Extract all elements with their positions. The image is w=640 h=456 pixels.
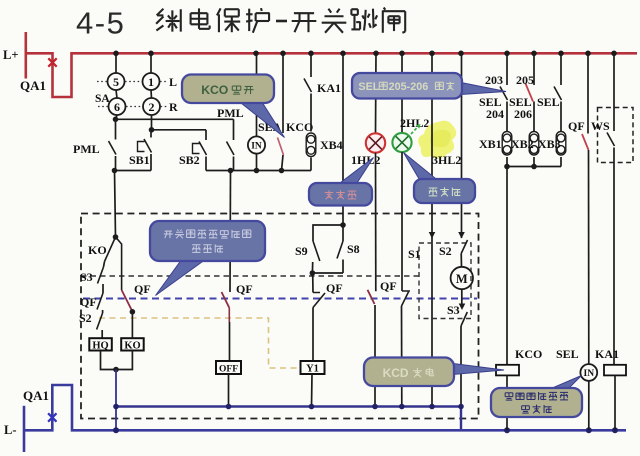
callout red-lamp-off box (309, 183, 372, 206)
svg-text:QF: QF (326, 281, 343, 295)
label XB2 (511, 137, 534, 151)
node S9-S8 join (310, 270, 316, 276)
svg-text:M: M (456, 272, 468, 286)
contact QF4 (opening, red) (368, 290, 376, 407)
contact S3 (left) (98, 262, 105, 294)
label QF4 (380, 279, 397, 293)
node QF1 bottom (130, 309, 136, 315)
contact QF (SEL column, opening) (582, 53, 589, 364)
open marker x on QA1 (48, 58, 56, 66)
label SEL (1) (479, 95, 502, 109)
coil box HQ (89, 338, 112, 351)
wire S2 column top (461, 53, 463, 238)
svg-text:1: 1 (148, 75, 154, 89)
wire OFF column from bus (229, 171, 232, 293)
contact KA1 (top) (304, 53, 312, 131)
svg-text:L+: L+ (3, 48, 18, 62)
svg-text:SEL: SEL (537, 95, 560, 109)
inner dashed box (motor linkage) (419, 243, 471, 319)
contact QF1 (opening, red) (116, 237, 133, 311)
label XB3 (538, 137, 561, 151)
wire M to S3 (461, 289, 463, 305)
svg-text:KO: KO (88, 243, 107, 257)
lamp 1HL2 red (366, 133, 385, 152)
label S9 (295, 244, 308, 258)
contact KO (105, 237, 116, 262)
coil box Y1 (301, 361, 325, 374)
dashed enclosure (breaker mechanism) (81, 214, 479, 419)
label 3HL2 (432, 153, 461, 167)
svg-text:WS: WS (591, 119, 610, 133)
bus1 drop to bus2 (460, 407, 462, 431)
callout SEL-205-206-return box (352, 73, 462, 99)
svg-text:5: 5 (113, 75, 119, 89)
contact SEL 205-206 (closing, red) (526, 53, 535, 131)
label XB1 (479, 137, 502, 151)
svg-text:3HL2: 3HL2 (432, 153, 461, 167)
minus bus 1 (blue) (116, 405, 461, 407)
wire join down to minus bus (115, 370, 117, 431)
svg-text:KA1: KA1 (317, 81, 341, 95)
svg-text:XB2: XB2 (511, 137, 534, 151)
node XB bus at XB1 (504, 164, 510, 170)
contact KCO (opening) (278, 53, 284, 170)
node bus1 at QF4 (372, 404, 378, 410)
node bus right at KCO column (279, 168, 285, 174)
label QF (left chain) (80, 295, 97, 309)
node bus right at SEA column (254, 168, 260, 174)
wire node to PML right branch (116, 118, 234, 120)
dashed box WS (598, 108, 634, 163)
label SEA (258, 120, 282, 134)
node bus1 at OFF (226, 404, 232, 410)
wire rail through 3HL2 column (431, 53, 433, 232)
orange dashed trip path (99, 318, 299, 368)
indicator SEA (IN) (248, 136, 265, 153)
svg-text:KCO: KCO (286, 120, 313, 134)
connector XB3 (556, 132, 566, 156)
label 1HL2 (351, 153, 380, 167)
label 205 (516, 73, 534, 87)
svg-text:SEL: SEL (556, 347, 579, 361)
svg-text:QF: QF (380, 279, 397, 293)
label KCO (bottom) (515, 347, 542, 361)
svg-text:PML: PML (217, 106, 244, 120)
svg-text:204: 204 (486, 107, 504, 121)
wire SA 1 to 2 (150, 90, 153, 98)
label QF1 (134, 282, 151, 296)
svg-text:S2: S2 (79, 311, 92, 325)
wire SA2 down to node (151, 115, 153, 130)
svg-text:6: 6 (114, 100, 120, 114)
label R (169, 100, 178, 114)
contact QF5 (closed type) (402, 291, 411, 407)
SA contact circle 1 (143, 73, 160, 90)
contact S2 (left) (97, 313, 103, 338)
svg-text:S3: S3 (80, 270, 93, 284)
svg-text:KCO: KCO (201, 83, 228, 97)
label SEL (3) (537, 95, 560, 109)
wire QF1 to KO box (131, 312, 133, 338)
node bus1 right (458, 404, 464, 410)
blue dashed linkage line (83, 298, 477, 300)
label 206 (514, 107, 532, 121)
contact S8 (337, 225, 343, 273)
svg-text:XB1: XB1 (479, 137, 502, 151)
label QF3 (326, 281, 343, 295)
svg-text:SB1: SB1 (129, 153, 150, 167)
svg-text:L: L (169, 75, 177, 89)
arrow on S3 (459, 304, 466, 311)
label QA1 (bottom) (23, 388, 49, 403)
label KCO (top) (286, 120, 313, 134)
label S3 (motor) (447, 303, 460, 317)
svg-text:QF: QF (236, 282, 253, 296)
coil KCO (496, 365, 519, 376)
label SEL (2) (509, 95, 532, 109)
lamp 2HL2 green (392, 133, 411, 152)
callout breaker-closed-indicator tail (550, 376, 582, 390)
svg-text:QA1: QA1 (20, 78, 46, 93)
lamp 3HL2 highlight blob (418, 121, 456, 159)
label XB4 (320, 138, 343, 152)
svg-text:Y1: Y1 (306, 363, 319, 374)
callout KCO-opens box (182, 75, 274, 104)
disconnect switch QA1 (top, open) (26, 53, 637, 97)
contact SEL (3) (554, 53, 562, 131)
svg-text:HQ: HQ (92, 340, 108, 351)
svg-text:KO: KO (124, 340, 140, 351)
wire lamp 2HL2 down (401, 152, 403, 291)
node XB bus at XB2 (531, 164, 537, 170)
svg-text:QA1: QA1 (23, 388, 49, 403)
SA contact circle 2 (143, 98, 160, 115)
connector XB2 (529, 132, 539, 156)
label PML (right) (217, 106, 244, 120)
svg-text:205: 205 (516, 73, 534, 87)
node bus1 at Y1 (309, 404, 315, 410)
junction dots on L+ rail (113, 51, 617, 57)
wire rail into box (S9/S8 feed) (342, 53, 344, 225)
node bus2 at KCO coil (504, 427, 510, 433)
callout red-lamp-off tail (338, 158, 374, 185)
disconnect switch QA1 (bottom, open) (24, 385, 626, 430)
wire rail to SEA lamp (256, 53, 258, 136)
svg-text:IN: IN (251, 142, 262, 152)
wire Y1 to minus bus1 (311, 374, 314, 407)
label L- (4, 423, 17, 437)
node bus1 left (113, 404, 119, 410)
wire rail to lamp 2HL2 (401, 53, 403, 133)
arrow on S1 column (429, 232, 436, 239)
label S1 (408, 247, 421, 261)
coil box OFF (216, 361, 241, 374)
svg-text:203: 203 (485, 73, 503, 87)
L+ terminal wire (24, 32, 27, 79)
motor M (451, 267, 473, 289)
wire S8 bottom to S9 node (312, 272, 343, 274)
callout KCD-deenergized box (364, 358, 454, 387)
callout breaker-closed-indicator box (491, 388, 582, 417)
wire XB bottoms bus (507, 157, 561, 167)
svg-text:PML: PML (73, 142, 100, 156)
svg-text:S8: S8 (347, 242, 360, 256)
wire SA6 down to node (116, 115, 118, 119)
wire bus left (PML/SB1 bottoms) (114, 170, 152, 172)
contact S2 (motor) (461, 240, 467, 267)
wire SEL IN to bus2 (588, 381, 590, 430)
coil KA1 (604, 365, 626, 376)
node under SA6 (113, 117, 119, 123)
green arrow (lamp on) (411, 124, 421, 134)
contact PML (right) (227, 119, 235, 170)
callout KCD-deenergized tail (453, 364, 504, 375)
label WS (591, 119, 610, 133)
wire S1 column (431, 232, 433, 407)
wire rail to SA contact 5 (115, 53, 117, 73)
node S9-S8 split (340, 222, 346, 228)
svg-text:L-: L- (4, 423, 17, 437)
svg-text:SB2: SB2 (179, 153, 200, 167)
label SB2 (179, 153, 200, 167)
node bus2 at SEL (586, 427, 592, 433)
label 2HL2 (400, 116, 429, 130)
svg-text:R: R (169, 100, 178, 114)
label QF2 (236, 282, 253, 296)
wire SA 5 to 6 (116, 90, 117, 98)
label S2 (motor) (439, 244, 452, 258)
contact QF (left chain) (97, 293, 103, 313)
svg-text:SA: SA (95, 93, 110, 105)
node bus2 at HQ/KO drop (113, 427, 119, 433)
svg-text:2HL2: 2HL2 (400, 116, 429, 130)
black dashed linkage line (81, 275, 419, 277)
callout green-lamp-on box (414, 179, 475, 203)
contact SEL 203-204 (500, 53, 508, 131)
pushbutton SB1 (144, 130, 152, 171)
label SA (95, 93, 110, 105)
svg-text:2: 2 (149, 100, 155, 114)
connector XB4 (306, 133, 316, 157)
node bus1 at S1 (429, 404, 435, 410)
label L (169, 75, 177, 89)
svg-text:S2: S2 (439, 244, 452, 258)
node PML-SB1 bus (112, 168, 118, 174)
callout KCO-opens tail (236, 99, 285, 138)
svg-text:XB3: XB3 (538, 137, 561, 151)
wire KA1 coil to bus2 (614, 375, 616, 430)
label S2 (left) (79, 311, 92, 325)
dotted linkage row R (98, 106, 167, 108)
dotted linkage row L (97, 81, 167, 83)
title 4-5 relay protection - breaker trip (76, 6, 405, 41)
callout aux-contacts tail (156, 259, 207, 296)
label L+ (3, 48, 18, 62)
wire XB bus down to KCO coil (506, 167, 508, 366)
callout aux-contacts box (150, 221, 265, 261)
contact QF2 (opening, red) (222, 292, 230, 322)
contact QF3 (closed type) (313, 273, 325, 361)
wire XB4 to bus (310, 158, 312, 171)
node KO branch (113, 234, 119, 240)
wire QF2 to OFF box (229, 322, 231, 361)
label KO (88, 243, 107, 257)
svg-text:205-206: 205-206 (389, 81, 429, 93)
label 203 (485, 73, 503, 87)
indicator SEL (IN bottom) (580, 364, 597, 381)
contact S3 (motor) (461, 312, 467, 407)
wire rail to SA contact 1 (150, 53, 152, 73)
wire SEA to bus (256, 154, 258, 171)
connector XB1 (502, 132, 512, 156)
SB1 actuator (138, 142, 145, 152)
coil box KO (121, 338, 144, 351)
svg-text:206: 206 (514, 107, 532, 121)
wire lamp 1HL2 down (375, 153, 377, 292)
svg-text:IN: IN (584, 369, 595, 379)
SA contact circle 5 (108, 73, 125, 90)
svg-text:KA1: KA1 (595, 347, 619, 361)
svg-text:S3: S3 (447, 303, 460, 317)
label KA1 (top) (317, 81, 341, 95)
SB2 actuator (193, 144, 200, 154)
label QA1 (top) (20, 78, 46, 93)
wire HQ KO bottoms join (101, 351, 133, 370)
svg-text:S9: S9 (295, 244, 308, 258)
callout green-lamp-on tail (404, 153, 439, 181)
svg-text:SEL: SEL (358, 81, 379, 93)
label SEL (bottom) (556, 347, 579, 361)
label S8 (347, 242, 360, 256)
label 204 (486, 107, 504, 121)
wire KCO coil to bus2 (506, 375, 508, 430)
node under SA2 (149, 127, 155, 133)
label PML (left) (73, 142, 100, 156)
contact S9 (312, 241, 319, 273)
L- terminal wire (23, 406, 26, 452)
label QF (right top) (568, 119, 585, 133)
wire rail to lamp 1HL2 (375, 53, 378, 133)
label S3 (left) (80, 270, 93, 284)
svg-text:OFF: OFF (219, 364, 238, 374)
contact PML (left) (109, 119, 117, 170)
wire node to SB2 branch (152, 129, 207, 131)
svg-text:QF: QF (134, 282, 151, 296)
svg-text:KCD: KCD (383, 366, 409, 380)
pushbutton SB2 (199, 130, 207, 171)
open marker x on QA1 bottom (48, 413, 56, 421)
node bus right at OFF column (228, 168, 234, 174)
contact WS (607, 53, 615, 365)
svg-text:QF: QF (568, 119, 585, 133)
SA contact circle 6 (109, 98, 126, 115)
node bus1 at QF5 (399, 404, 405, 410)
svg-text:XB4: XB4 (320, 138, 343, 152)
wire split to S9 (313, 225, 343, 241)
wire bus right (SB2..XB4 bottoms) (206, 170, 311, 172)
node bus2 at KA1 (612, 427, 618, 433)
label SB1 (129, 153, 150, 167)
arrow on S2 column (458, 232, 465, 239)
svg-text:4-5: 4-5 (76, 6, 125, 41)
node HQ-KO join (113, 367, 119, 373)
callout SEL-205-206-return tail (461, 83, 506, 95)
wire OFF to minus bus1 (228, 374, 230, 407)
label KA1 (bottom) (595, 347, 619, 361)
svg-text:KCO: KCO (515, 347, 542, 361)
wire PML bus down into box (115, 171, 116, 238)
svg-text:QF: QF (80, 295, 97, 309)
